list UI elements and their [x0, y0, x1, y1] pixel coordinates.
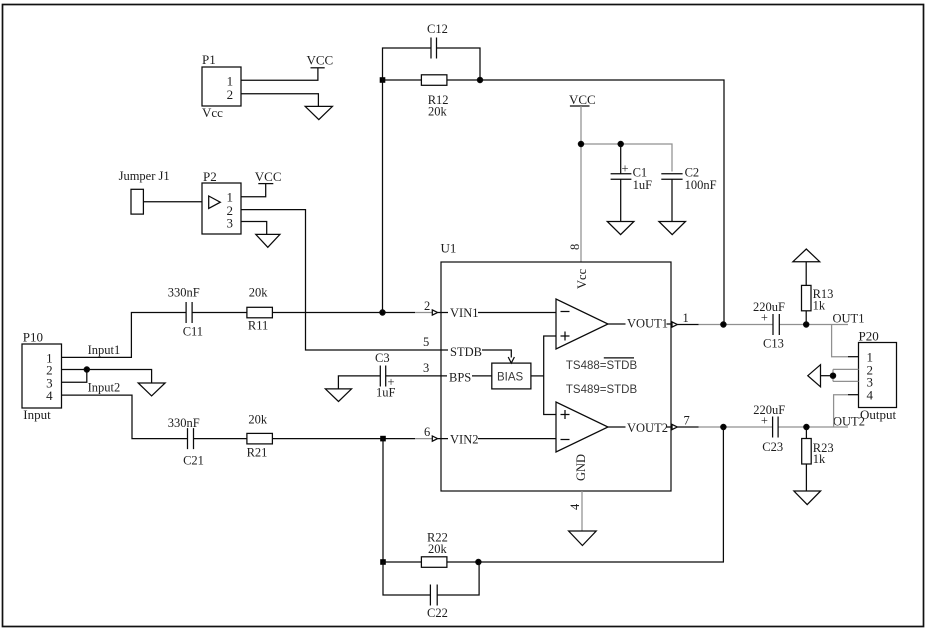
wire Input2: P10.4 to C21: [62, 395, 188, 439]
junction (C1 tap): [618, 141, 623, 146]
wire P1.2 to ground: [241, 94, 318, 107]
junction (VIN1 node): [380, 310, 385, 315]
svg-text:6: 6: [424, 425, 430, 439]
power VCC (P1): [307, 53, 334, 68]
ground (input): [138, 383, 165, 396]
svg-text:20k: 20k: [428, 542, 448, 556]
resistor R21: [247, 413, 273, 460]
svg-text:U1: U1: [441, 241, 457, 256]
svg-text:VCC: VCC: [255, 169, 282, 184]
svg-text:2: 2: [424, 299, 430, 313]
wire P2.3 to ground: [241, 222, 267, 235]
op-amp U1B: [556, 402, 608, 452]
wire feedback2 vertical (VIN2 to R22): [382, 439, 384, 562]
wire OUT2 net: [699, 426, 848, 428]
label VOUT2: [626, 420, 668, 436]
svg-text:P20: P20: [859, 329, 879, 344]
capacitor C2: [661, 165, 716, 192]
svg-text:4: 4: [568, 503, 582, 510]
wire C22 loop: [383, 562, 479, 595]
svg-text:7: 7: [684, 414, 690, 428]
wire R21 to U1.6: [272, 438, 415, 440]
svg-text:GND: GND: [574, 454, 588, 481]
wire OUT2 feedback vertical: [722, 427, 724, 562]
svg-text:VIN2: VIN2: [450, 432, 478, 446]
wire R11 to U1.2: [272, 312, 415, 314]
pin stub U1.1: [677, 324, 698, 326]
svg-text:C22: C22: [427, 606, 448, 620]
svg-text:+: +: [761, 311, 768, 325]
svg-text:TS488=STDB: TS488=STDB: [566, 360, 638, 372]
resistor R13: [802, 285, 834, 312]
svg-text:330nF: 330nF: [168, 416, 200, 430]
svg-text:Input: Input: [23, 407, 51, 422]
svg-text:VIN1: VIN1: [450, 306, 478, 320]
svg-text:20k: 20k: [248, 413, 268, 427]
capacitor C23: [753, 403, 785, 454]
svg-text:Input1: Input1: [88, 343, 121, 357]
wire C21 to R21: [194, 438, 247, 440]
pin arrow U1.7: [672, 424, 677, 429]
capacitor C22: [427, 585, 448, 621]
wire C1 top stub: [620, 144, 622, 174]
wire R22 to OUT2 feedback: [478, 561, 724, 563]
svg-text:5: 5: [423, 335, 429, 349]
svg-text:R11: R11: [248, 319, 268, 333]
svg-text:220uF: 220uF: [753, 300, 785, 314]
pin stub U1.2: [415, 312, 432, 314]
svg-text:Input2: Input2: [88, 381, 121, 395]
svg-text:VOUT1: VOUT1: [627, 317, 668, 331]
svg-text:Jumper J1: Jumper J1: [119, 169, 170, 183]
pin arrow U1.6: [432, 436, 441, 441]
svg-text:1uF: 1uF: [376, 386, 396, 400]
label BPS + wire: [441, 370, 492, 384]
junction (VIN2 node, square): [380, 436, 386, 442]
wire STDB net: P2.2 to U1.5: [241, 210, 441, 350]
connector P10: [22, 330, 62, 423]
svg-text:OUT1: OUT1: [833, 312, 865, 326]
capacitor C13: [753, 300, 785, 351]
wire VCC rail to C1 C2: [581, 144, 672, 172]
jumper J1: [119, 169, 170, 214]
power arrow (R13): [793, 249, 820, 262]
svg-text:BIAS: BIAS: [497, 372, 524, 384]
wire R12 row: [383, 79, 481, 81]
wire P10.3: [62, 370, 87, 383]
svg-text:220uF: 220uF: [753, 403, 785, 417]
pin arrow U1.2: [432, 310, 441, 315]
wire OUT1 net: [699, 324, 848, 326]
power VCC (P2): [255, 169, 282, 184]
svg-text:100nF: 100nF: [685, 178, 717, 192]
wire feedback1 to OUT1 node: [480, 80, 724, 325]
wire J1 to P2: [143, 201, 202, 203]
svg-text:C23: C23: [762, 440, 783, 454]
svg-text:1k: 1k: [813, 299, 826, 313]
junction (OUT2/R23): [804, 424, 809, 429]
wire P20.2-3 tie: [833, 369, 859, 381]
wire C11 to R11: [192, 312, 247, 314]
svg-text:8: 8: [568, 244, 582, 250]
label VOUT1: [626, 315, 668, 331]
svg-text:+: +: [761, 414, 768, 428]
connector P20: [859, 329, 897, 422]
wire VCC rail down to U1.8: [580, 106, 582, 262]
label TS488: [566, 358, 638, 372]
power VCC (main rail): [569, 92, 596, 107]
svg-text:3: 3: [423, 361, 429, 375]
ground (R23): [794, 491, 821, 505]
resistor R23: [802, 439, 834, 467]
wire R13 stubs: [805, 262, 807, 325]
wire C1 to ground: [620, 179, 622, 221]
connector P1: [202, 52, 241, 120]
wire P2.1 to VCC: [241, 184, 266, 197]
svg-text:2: 2: [227, 87, 234, 102]
svg-text:4: 4: [46, 388, 53, 403]
label VIN2: [448, 431, 478, 446]
ground (C1): [607, 222, 634, 235]
svg-text:R21: R21: [247, 446, 268, 460]
svg-text:20k: 20k: [428, 105, 448, 119]
ground (C2): [659, 222, 686, 235]
ground (C3): [325, 389, 351, 402]
pin stub U1.7: [677, 426, 698, 428]
wire R22 row: [383, 561, 478, 563]
op-amp U1A: [556, 299, 608, 349]
capacitor C11: [168, 286, 203, 339]
wire R23 stubs: [805, 427, 807, 491]
svg-text:P1: P1: [202, 52, 216, 67]
svg-text:20k: 20k: [249, 286, 269, 300]
wire P10.2: [62, 369, 87, 371]
wire stub P20.4: [848, 394, 859, 396]
svg-text:C13: C13: [763, 337, 784, 351]
svg-text:Vcc: Vcc: [575, 268, 589, 289]
capacitor C3: [375, 351, 396, 400]
BIAS block: [492, 363, 531, 389]
svg-text:BPS: BPS: [449, 370, 471, 384]
wire U1A plus input: [544, 336, 556, 415]
resistor R22: [421, 531, 447, 568]
svg-text:1k: 1k: [813, 452, 826, 466]
junction (P10.2/P10.3): [84, 367, 89, 372]
junction (OUT1/R13): [804, 322, 809, 327]
wire C12 top loop: [383, 48, 481, 80]
svg-text:C12: C12: [427, 22, 448, 36]
ground (P1): [305, 106, 332, 119]
wire Input1: P10.1 to C11: [62, 313, 187, 358]
wire P10.2-3 to ground: [87, 370, 152, 384]
wire stub P20.1: [848, 356, 859, 358]
wire C2 to ground: [671, 179, 673, 221]
wire C3 to U1.3: [386, 375, 441, 377]
junction (R22 right): [476, 559, 481, 564]
capacitor C1: [611, 162, 653, 193]
junction (P20.2-3): [830, 373, 835, 378]
svg-text:P2: P2: [203, 169, 217, 184]
svg-text:4: 4: [867, 388, 874, 403]
junction (OUT2/feedback): [721, 424, 726, 429]
wire VIN2 inside: [441, 438, 556, 440]
resistor R11: [247, 286, 273, 333]
wire U1.4 to ground: [581, 491, 583, 531]
svg-text:VOUT2: VOUT2: [627, 421, 668, 435]
svg-text:C21: C21: [183, 454, 204, 468]
svg-text:+: +: [622, 162, 629, 176]
label VIN1: [448, 305, 478, 320]
svg-text:330nF: 330nF: [168, 286, 200, 300]
wire BIAS to plus rail: [531, 375, 544, 377]
wire C3 to ground: [338, 376, 380, 389]
wire VIN1 inside: [441, 312, 556, 314]
wire arrow stub: [821, 375, 834, 377]
power arrow (output return): [808, 365, 821, 387]
wire VIN1 node down from R12: [382, 80, 384, 313]
junction (OUT1/feedback): [721, 322, 726, 327]
svg-text:1: 1: [683, 311, 689, 325]
svg-text:STDB: STDB: [450, 345, 482, 359]
svg-text:C11: C11: [183, 325, 203, 339]
junction (VCC rail): [578, 141, 583, 146]
svg-text:3: 3: [227, 215, 234, 230]
svg-text:Output: Output: [860, 407, 897, 422]
ground (U1.4): [569, 531, 597, 546]
svg-text:Vcc: Vcc: [202, 105, 223, 120]
junction (R12 right): [477, 77, 482, 82]
junction (R22 left, square): [380, 559, 386, 565]
junction (R12 left, square): [380, 77, 386, 83]
wire U1A output: [608, 323, 672, 325]
wire OUT1 to P20.1: [832, 325, 848, 357]
pin stub U1.6: [415, 438, 432, 440]
ground (P2): [256, 234, 280, 247]
svg-text:1uF: 1uF: [633, 178, 653, 192]
wire U1B output: [608, 426, 672, 428]
svg-text:P10: P10: [23, 330, 43, 345]
svg-text:C3: C3: [375, 351, 390, 365]
wire OUT2 to P20.4: [834, 395, 848, 427]
svg-text:VCC: VCC: [307, 53, 334, 68]
capacitor C21: [168, 416, 204, 468]
resistor R12: [421, 75, 448, 119]
IC U1: [441, 241, 672, 492]
svg-text:VCC: VCC: [569, 92, 596, 107]
label STDB + wire to BIAS: [441, 344, 514, 364]
connector P2: [202, 169, 241, 234]
wire P1.1 to VCC: [241, 68, 318, 80]
pin arrow U1.1: [672, 322, 677, 327]
capacitor C12: [427, 22, 448, 59]
svg-text:TS489=STDB: TS489=STDB: [566, 384, 638, 396]
